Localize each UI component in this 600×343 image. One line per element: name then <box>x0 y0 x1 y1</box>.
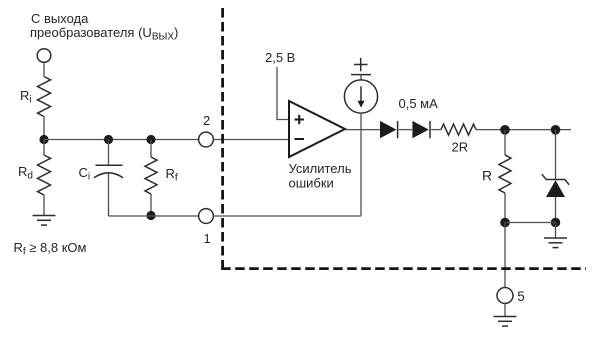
IC boundary (dashed) vertical <box>221 8 224 270</box>
resistor Rd <box>38 155 51 195</box>
svg-text:5: 5 <box>517 289 525 304</box>
wire <box>504 223 506 288</box>
wire: terminal 1 to feedback <box>213 215 361 217</box>
current source (0,5 mA) <box>344 58 377 130</box>
node junction (zener top) <box>551 125 561 135</box>
svg-text:2R: 2R <box>452 140 469 155</box>
wire: top rail <box>44 139 199 141</box>
svg-text:2: 2 <box>203 113 210 128</box>
wire <box>108 140 110 166</box>
wire <box>476 129 571 131</box>
resistor Ri <box>38 77 51 117</box>
wire <box>504 304 506 317</box>
wire <box>505 222 556 224</box>
wire <box>504 193 506 223</box>
zener diode VD <box>542 174 569 197</box>
ground (terminal 5) <box>494 317 517 327</box>
wire <box>43 117 45 140</box>
node junction A <box>39 135 48 144</box>
svg-text:Ri: Ri <box>20 88 32 106</box>
wire <box>504 130 506 155</box>
node junction (Rf bottom) <box>146 211 155 220</box>
svg-text:ошибки: ошибки <box>289 175 334 190</box>
wire: feedback vertical <box>360 130 362 216</box>
resistor Rf <box>145 157 157 194</box>
ground (under Rd) <box>33 216 56 226</box>
IC boundary (dashed) horizontal <box>221 267 586 270</box>
wire <box>150 140 152 158</box>
svg-text:Усилитель: Усилитель <box>289 161 352 176</box>
wire <box>555 130 557 180</box>
wire <box>43 195 45 216</box>
node junction (R top) <box>500 125 510 135</box>
svg-text:0,5 мА: 0,5 мА <box>399 96 439 111</box>
terminal 5 <box>497 288 513 304</box>
resistor R <box>499 155 511 193</box>
wire <box>555 197 557 223</box>
svg-text:Ci: Ci <box>79 165 91 183</box>
svg-text:С выхода: С выхода <box>31 11 89 26</box>
label: С выхода преобразователя (Uвых) <box>30 11 178 43</box>
diode D2 <box>412 121 430 138</box>
svg-text:преобразователя (UВЫХ): преобразователя (UВЫХ) <box>30 25 178 43</box>
svg-text:1: 1 <box>204 231 211 246</box>
node junction (zener bottom) <box>551 218 561 228</box>
wire <box>43 140 45 156</box>
op-amp U1 (error amplifier) <box>289 101 345 157</box>
wire: op-amp output <box>345 129 380 131</box>
node junction (Ci tap) <box>104 135 113 144</box>
capacitor Ci <box>94 165 123 178</box>
svg-text:Rf: Rf <box>166 166 178 184</box>
wire <box>555 223 557 239</box>
wire <box>108 173 110 216</box>
ground (zener) <box>544 238 567 248</box>
svg-text:Rd: Rd <box>18 164 33 182</box>
svg-text:R: R <box>482 167 492 183</box>
wire: 2.5V reference to non-inverting input <box>277 67 289 120</box>
node junction (Rf tap) <box>146 135 155 144</box>
terminal 2 <box>199 132 214 147</box>
label: Усилитель ошибки <box>289 161 352 190</box>
wire <box>43 62 45 76</box>
wire <box>431 129 441 131</box>
node junction (R bottom) <box>500 218 510 228</box>
diode D1 <box>380 121 398 138</box>
wire: terminal 2 to inverting input <box>213 139 289 141</box>
wire: bottom rail <box>109 215 199 217</box>
wire <box>150 194 152 216</box>
terminal: input from converter <box>37 49 51 63</box>
terminal 1 <box>199 209 214 224</box>
wire <box>399 129 412 131</box>
svg-text:Rf ≥ 8,8 кОм: Rf ≥ 8,8 кОм <box>14 240 87 258</box>
resistor 2R <box>441 124 476 135</box>
svg-text:2,5 В: 2,5 В <box>265 50 295 65</box>
